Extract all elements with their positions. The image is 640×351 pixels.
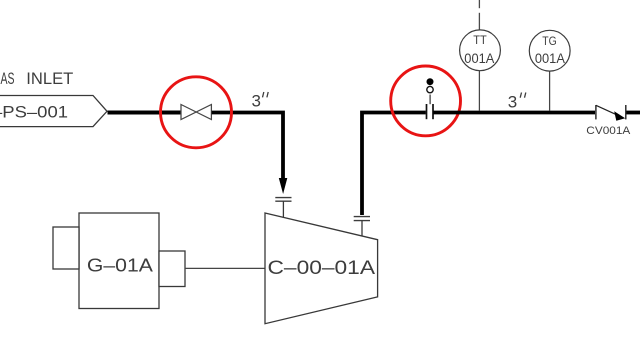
motor G-01A right boss xyxy=(159,251,185,287)
svg-text:–PS–001: –PS–001 xyxy=(0,103,68,122)
wire second pipe: corner at x=362 down to compressor, right to union xyxy=(362,113,426,216)
compressor C-00-01A body xyxy=(265,213,378,324)
flange pair at compressor second inlet xyxy=(354,216,370,218)
instrument TG001A balloon xyxy=(529,30,570,71)
svg-text:001A: 001A xyxy=(535,51,565,66)
vent open circle xyxy=(427,86,433,92)
wire main pipe from tag to valve xyxy=(108,111,182,115)
wire pipe from union to control valve xyxy=(433,111,595,115)
svg-text:3: 3 xyxy=(508,93,517,112)
instrument TT001A signal dash above xyxy=(478,13,480,30)
motor G-01A body xyxy=(79,213,159,309)
svg-text:TG: TG xyxy=(542,36,557,48)
control valve CV001A left tick xyxy=(595,105,597,119)
svg-text:INLET: INLET xyxy=(26,69,73,88)
svg-text:TT: TT xyxy=(473,35,487,47)
control valve CV001A diagonal xyxy=(596,105,620,116)
arrowhead into compressor inlet xyxy=(279,178,288,194)
wire pipe from valve to corner and down xyxy=(212,113,283,179)
wire stub flange to compressor xyxy=(361,221,363,236)
red highlight circle around union/vent xyxy=(391,66,461,136)
union / break symbol right tick xyxy=(432,104,434,119)
control valve CV001A arrowhead xyxy=(614,111,625,120)
control valve CV001A right tick xyxy=(625,105,627,119)
wire pipe after control valve xyxy=(627,111,640,115)
svg-text:CV001A: CV001A xyxy=(586,125,631,137)
instrument TG001A stem xyxy=(549,71,551,111)
motor G-01A left boss xyxy=(53,227,79,269)
svg-text:C–00–01A: C–00–01A xyxy=(268,258,376,279)
vent filled circle xyxy=(427,78,434,85)
red highlight circle around valve xyxy=(161,77,232,148)
svg-text:3: 3 xyxy=(252,92,261,111)
svg-text:001A: 001A xyxy=(464,51,494,66)
vent stem xyxy=(429,95,431,105)
flange pair at compressor first inlet xyxy=(275,197,291,199)
svg-text:G–01A: G–01A xyxy=(87,255,153,275)
svg-text:AS: AS xyxy=(1,69,15,88)
valve V1 (gate valve bowtie) xyxy=(181,105,211,120)
wire stub flange to compressor xyxy=(282,201,284,217)
wire shaft motor to compressor xyxy=(185,267,265,269)
union / break symbol left tick xyxy=(426,104,428,119)
node tag pentagon -PS-001 xyxy=(0,96,107,127)
instrument TT001A stem xyxy=(478,71,480,111)
instrument TT001A balloon xyxy=(460,30,501,71)
